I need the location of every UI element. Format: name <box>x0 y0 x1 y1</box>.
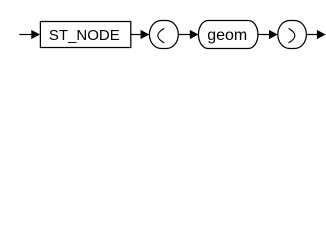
railroad syntax diagram: ST_NODE ( geom ) <box>0 0 326 58</box>
arrowhead into geom <box>190 30 199 39</box>
wire: box to ( <box>131 34 143 36</box>
box ST_NODE (non-terminal) <box>40 22 130 48</box>
glyph ) drawn as arc <box>289 28 295 43</box>
arrowhead exit <box>317 30 326 39</box>
svg-text:geom: geom <box>207 27 247 44</box>
wire: entry line <box>19 34 32 36</box>
glyph ( drawn as arc <box>158 28 164 43</box>
arrowhead into ) <box>269 30 278 39</box>
svg-text:ST_NODE: ST_NODE <box>49 27 120 44</box>
oval geom (terminal) <box>198 21 258 49</box>
oval ) terminal <box>278 21 307 49</box>
wire: exit line <box>306 34 317 36</box>
oval ( terminal <box>149 21 178 49</box>
arrowhead into ( <box>141 30 150 39</box>
arrowhead into ST_NODE box <box>31 30 40 39</box>
wire: geom to ) <box>258 34 270 36</box>
wire: ( to geom <box>178 34 190 36</box>
